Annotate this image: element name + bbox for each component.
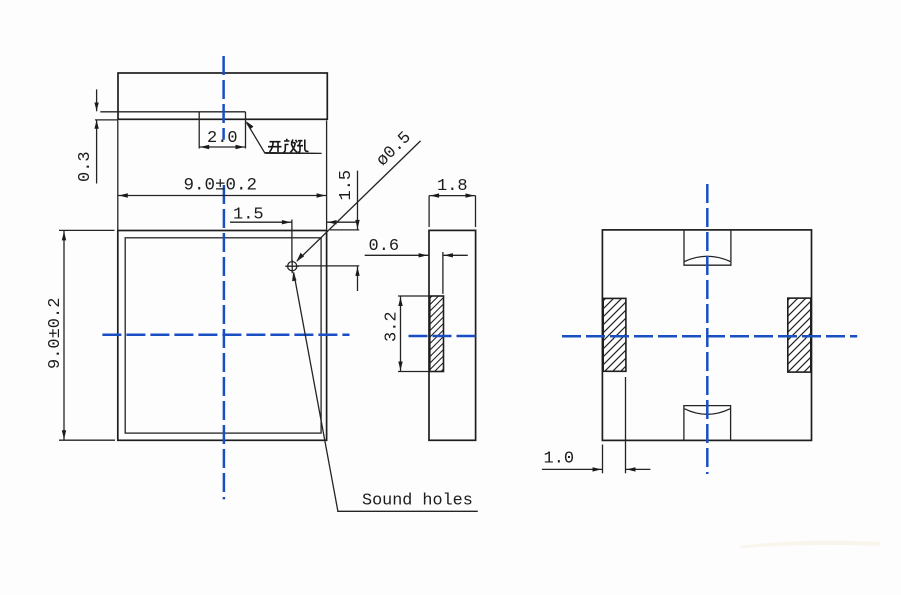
bottom view left pad [603,298,626,371]
centerline side view vertical [222,56,225,140]
dimension 1.5 horizontal arrow right [328,220,337,224]
dimension 0.3 arrow lower [94,120,98,129]
svg-text:Sound holes: Sound holes [362,492,473,511]
bottom view outline [602,230,811,441]
dimension 3.2 extension bottom [398,371,429,373]
dimension 9.0 top extension left [117,121,119,231]
svg-text:1.5: 1.5 [337,170,356,201]
dimension 1.8 arrow right [466,193,475,197]
side view bottom extension left [95,119,118,121]
dimension 0.6 extension [442,252,444,294]
dimension 2.0 arrow right [236,145,245,149]
dimension 0.6 arrow right [444,253,453,257]
bottom view bottom notch [684,406,731,441]
svg-text:1.0: 1.0 [544,450,575,469]
dimension 1.5 horizontal extension at hole [291,220,293,262]
dimension 1.0 arrow right [627,467,636,471]
dimension 0.3 extension upper [96,89,98,111]
dimension 9.0 left line [63,230,65,440]
dimension 1.5 horizontal arrow [282,220,291,224]
dimension 1.0 arrow left [593,467,602,471]
dimension 1.5 vertical extension top [330,229,359,231]
dimension 2.0 extension right [245,119,247,148]
leader sound holes line [294,273,478,512]
dimension 1.0 extension left [602,445,604,474]
dimension 9.0 left extension bottom [59,439,115,441]
dimension 9.0 left extension top [59,229,115,231]
dimension 3.2 arrow top [398,297,402,306]
dimension 1.8 extension left [428,196,430,227]
svg-text:9.0±0.2: 9.0±0.2 [184,176,258,196]
svg-text:2.0: 2.0 [207,129,238,148]
leader open hole line [247,123,322,154]
dimension 9.0 top arrow right [317,193,326,197]
leader dia 0.5 arrow [296,253,304,262]
centerline bottom view horizontal [562,335,857,338]
section view pad hatch [430,296,444,372]
label open-hole chinese 放 [284,139,298,153]
centerline top view horizontal [102,333,349,336]
leader dia 0.5 line [297,141,421,261]
dimension 9.0 top extension right [326,121,328,231]
bottom view right pad [788,298,811,372]
dimension 2.0 extension left [198,119,200,148]
side view body outline [118,73,327,119]
dimension 1.5 vertical arrow upper [355,220,359,229]
dimension 1.5 vertical arrow lower [355,267,359,276]
dimension 0.3 arrow upper [94,103,98,112]
dimension 1.8 line [429,195,475,197]
bottom view bottom notch arc [685,409,731,415]
dimension 3.2 extension top [398,295,429,297]
dimension 9.0 left arrow bottom [62,430,66,439]
label open-hole chinese 开 [268,139,308,153]
centerline bottom view vertical [706,184,709,474]
side view notch left side [198,112,200,120]
dimension 9.0 top arrow left [119,193,128,197]
bottom view top notch arc [685,256,731,261]
dimension 2.0 arrow left [200,145,209,149]
label open-hole chinese 孔 [297,140,308,153]
svg-text:3.2: 3.2 [383,311,402,342]
side view notch right side [245,112,247,120]
svg-text:0.6: 0.6 [369,237,400,256]
bottom view top notch [684,230,731,265]
section view outline [429,230,476,440]
dimension 1.8 arrow left [430,193,439,197]
dimension 0.6 line right [443,254,468,256]
dimension 3.2 arrow bottom [398,362,402,371]
dimension 1.8 extension right [475,196,477,227]
dimension 0.6 arrow left [419,253,428,257]
dimension 1.5 horizontal line left part [230,221,292,223]
top view outer square [118,231,327,441]
dimension 2.0 line [199,146,245,148]
svg-text:9.0±0.2: 9.0±0.2 [46,298,65,369]
dimension 0.6 line left [365,254,429,256]
faint scan smudge [740,541,880,548]
centerline section view horizontal [409,335,481,338]
dimension 1.5 horizontal right part [327,221,358,223]
svg-text:1.5: 1.5 [233,206,264,225]
side view flange line [100,111,245,113]
top view inner square [125,238,321,433]
centerline top view vertical [223,185,226,499]
dimension 1.5 vertical extension hole [298,265,360,267]
dimension 1.0 line right [626,468,651,470]
sound hole cross ticks [285,260,299,273]
svg-text:0.3: 0.3 [76,151,95,182]
dimension 9.0 left arrow top [62,231,66,240]
dimension 3.2 line [400,296,402,372]
dimension 1.5 vertical line lower [357,266,359,291]
dimension 1.0 line left [542,468,603,470]
dimension 0.3 line lower [96,120,98,184]
leader open hole arrow [246,121,254,129]
dimension 9.0 top line [118,195,327,197]
svg-text:1.8: 1.8 [437,177,468,196]
leader sound holes arrow [292,272,296,282]
dimension 1.5 vertical line upper [357,171,359,230]
sound hole circle [288,262,297,271]
dimension 1.0 extension right [625,377,627,473]
